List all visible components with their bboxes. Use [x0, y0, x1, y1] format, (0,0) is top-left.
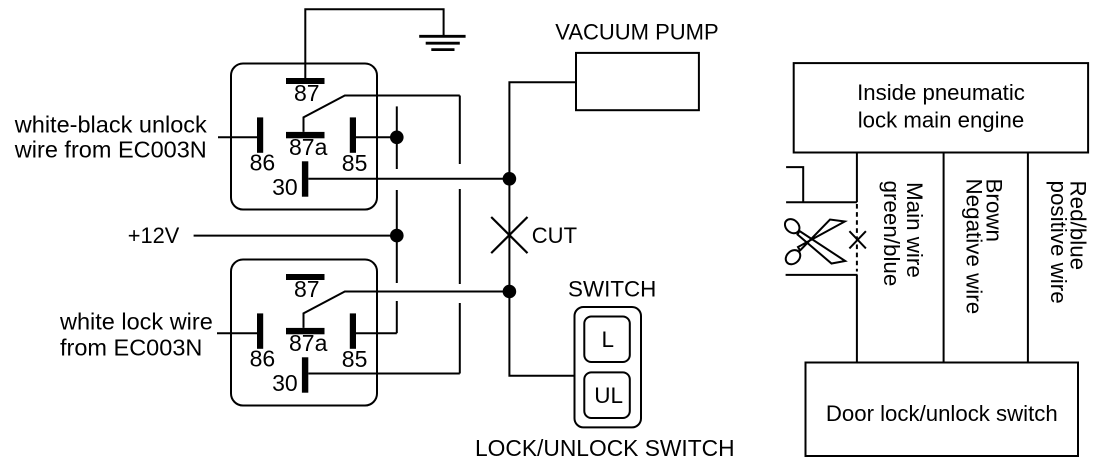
- relay K1 armature wire 87a to output: [304, 96, 460, 132]
- svg-text:30: 30: [272, 370, 298, 396]
- small x cut mark on wire M1: [849, 231, 866, 248]
- wire: bus x=397 to relay K2 pin 85: [356, 332, 397, 334]
- wire: vertical bus x=397 upper segment: [396, 106, 398, 169]
- lower cut boundary line: [786, 274, 858, 276]
- wire: main cut line to vacuum pump and switch: [509, 82, 576, 376]
- wire: K1 armature output drop middle segment: [459, 189, 461, 284]
- relay K2 body: [231, 260, 377, 406]
- box: inside pneumatic lock main engine: [794, 63, 1088, 152]
- svg-text:positive wire: positive wire: [1046, 181, 1071, 304]
- upper cut boundary line: [786, 201, 857, 203]
- relay K2 armature wire 87a to cut line: [304, 292, 510, 328]
- wire: relay K1 pin 30 to cut line: [308, 178, 509, 180]
- svg-text:Door lock/unlock switch: Door lock/unlock switch: [826, 401, 1058, 426]
- svg-text:wire from EC003N: wire from EC003N: [14, 137, 207, 163]
- node A junction dot: [390, 131, 404, 145]
- svg-text:green/blue: green/blue: [879, 181, 904, 287]
- wire: lock label to relay K2 pin 86: [217, 332, 258, 334]
- node D junction dot: [503, 285, 517, 299]
- relay K2 pin 87a contact bar: [286, 328, 325, 334]
- svg-text:lock main engine: lock main engine: [858, 108, 1025, 133]
- wire: drop x=460 to relay K2 pin 30: [308, 373, 460, 375]
- svg-text:86: 86: [250, 346, 276, 372]
- wire: vertical bus x=397 middle segment: [396, 190, 398, 283]
- ground symbol: [419, 36, 465, 49]
- switch S1 lock button: [584, 317, 630, 363]
- svg-text:white-black unlock: white-black unlock: [14, 112, 207, 138]
- node B junction dot: [390, 229, 404, 243]
- relay K2 pin 87 contact bar: [286, 274, 325, 280]
- wire M1 dashed cut section: [856, 204, 858, 272]
- svg-text:30: 30: [272, 174, 298, 200]
- wire: K1 armature output drop upper segment: [459, 96, 461, 165]
- wire M1 main green/blue wire upper solid segment: [856, 153, 858, 203]
- svg-text:86: 86: [250, 150, 276, 176]
- svg-text:Inside pneumatic: Inside pneumatic: [857, 80, 1025, 105]
- relay K2 pin 85 contact bar: [350, 313, 356, 348]
- svg-text:VACUUM PUMP: VACUUM PUMP: [555, 20, 718, 45]
- wire M2 brown negative wire: [943, 153, 945, 363]
- svg-text:CUT: CUT: [532, 223, 577, 248]
- relay K1 body: [231, 64, 377, 210]
- wire: +12V feed: [194, 235, 397, 237]
- svg-text:from EC003N: from EC003N: [60, 334, 202, 360]
- relay K2 pin 30 contact bar: [302, 357, 308, 392]
- relay K1 pin 87a contact bar: [286, 132, 325, 138]
- relay K1 pin 30 contact bar: [302, 161, 308, 196]
- svg-text:Negative wire: Negative wire: [962, 179, 987, 315]
- relay K2 pin 86 contact bar: [257, 313, 263, 348]
- wire: K1 armature output drop lower segment: [459, 303, 461, 374]
- box: door lock/unlock switch: [806, 363, 1079, 457]
- svg-text:Main wire: Main wire: [902, 182, 927, 278]
- label: white lock wire from EC003N: [59, 309, 213, 361]
- wire M1 lower solid segment: [856, 275, 858, 363]
- relay K1 pin 85 contact bar: [350, 117, 356, 152]
- wire: relay K1 pin 87 to ground: [305, 9, 443, 78]
- svg-text:L: L: [601, 327, 614, 352]
- scissors cut symbol: [782, 216, 845, 267]
- vacuum pump box: [576, 53, 699, 110]
- svg-text:87a: 87a: [289, 134, 328, 160]
- label: brown negative wire: [962, 179, 1007, 315]
- relay K1 pin 86 contact bar: [257, 117, 263, 152]
- svg-text:LOCK/UNLOCK SWITCH: LOCK/UNLOCK SWITCH: [475, 435, 735, 461]
- svg-text:87a: 87a: [289, 330, 328, 356]
- svg-text:+12V: +12V: [128, 223, 180, 248]
- label: red/blue positive wire: [1046, 181, 1091, 304]
- svg-text:85: 85: [342, 346, 368, 372]
- switch S1 outer body: [575, 307, 642, 427]
- wire: relay K1 pin 85 to node A: [356, 136, 397, 138]
- svg-text:85: 85: [342, 150, 368, 176]
- label: white-black unlock wire from EC003N: [14, 112, 207, 163]
- svg-text:SWITCH: SWITCH: [568, 276, 656, 301]
- node C junction dot: [503, 172, 517, 186]
- svg-text:87: 87: [294, 80, 320, 106]
- svg-text:UL: UL: [594, 383, 623, 408]
- wire: unlock label to relay K1 pin 86: [218, 136, 258, 138]
- label: inside pneumatic lock main engine: [857, 80, 1025, 133]
- svg-text:white lock wire: white lock wire: [59, 309, 213, 335]
- wire M3 red/blue positive wire: [1027, 153, 1029, 363]
- svg-text:87: 87: [294, 276, 320, 302]
- switch S1 unlock button: [584, 372, 630, 418]
- cut X mark: [491, 217, 527, 253]
- wire: vertical bus x=397 lower segment: [396, 301, 398, 333]
- label: main wire green/blue: [879, 181, 927, 287]
- connector stub near engine box: [786, 167, 803, 202]
- relay K1 pin 87 contact bar: [286, 78, 325, 84]
